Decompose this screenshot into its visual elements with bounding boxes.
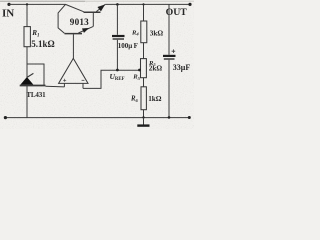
wire: op-amp output to Q2 base <box>72 34 74 58</box>
wire: TL431 anode to bottom rail <box>26 86 28 118</box>
svg-text:9013: 9013 <box>70 17 89 27</box>
wire: down to R1 <box>26 4 28 26</box>
svg-text:IN: IN <box>2 8 14 20</box>
paper background <box>0 0 194 129</box>
svg-text:100μ F: 100μ F <box>118 42 138 50</box>
resistor R5 <box>141 59 147 87</box>
wire: TL431 ref branch <box>27 64 44 86</box>
wire: top rail IN segment <box>9 3 66 5</box>
capacitor C1 100uF <box>112 4 125 70</box>
wire: bottom rail <box>5 117 189 119</box>
node: C2 bottom junction <box>168 116 171 119</box>
svg-text:TL431: TL431 <box>26 91 46 99</box>
OUT terminal dot <box>188 3 191 6</box>
resistor R4 <box>141 4 147 58</box>
node: cap C1 top <box>116 3 119 6</box>
wire: U_REF net <box>83 69 141 89</box>
svg-text:5.1kΩ: 5.1kΩ <box>31 39 54 49</box>
node: bottom-right terminal <box>188 116 191 119</box>
svg-text:33μF: 33μF <box>173 63 191 72</box>
transistor Q1 pass 9013 <box>66 4 106 26</box>
wire: top rail OUT segment <box>105 3 190 5</box>
wire: node line TL431 to op-amp input <box>46 85 65 88</box>
op-amp U1 <box>59 58 88 88</box>
node: junction R1 top <box>26 3 28 5</box>
svg-text:1kΩ: 1kΩ <box>148 95 162 103</box>
resistor R6 <box>141 87 146 118</box>
svg-text:3kΩ: 3kΩ <box>150 30 164 38</box>
node: R4 top <box>142 3 144 5</box>
node: R6 bottom junction <box>142 116 144 118</box>
ground <box>137 117 149 125</box>
wire: R1 bottom to TL431 <box>26 47 28 77</box>
capacitor C2 33uF <box>163 4 176 117</box>
node: bottom-left terminal <box>4 116 7 119</box>
top border artifact <box>0 0 194 2</box>
transistor Q2 (driver) <box>58 4 93 33</box>
resistor R1 <box>24 27 30 47</box>
IN terminal dot <box>7 3 10 6</box>
TL431 D1 <box>20 73 46 85</box>
svg-text:OUT: OUT <box>166 7 188 18</box>
svg-text:2kΩ: 2kΩ <box>149 64 163 72</box>
